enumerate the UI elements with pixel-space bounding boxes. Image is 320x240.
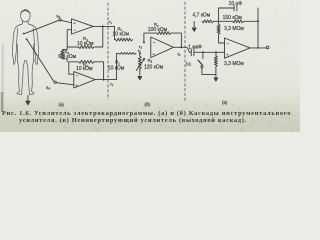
dashed separator a|b [107,3,109,99]
svg-text:−: − [153,40,156,45]
wire chest to electrode e2 [24,20,59,34]
svg-text:т4: т4 [138,49,142,54]
svg-text:+: + [75,83,78,88]
resistor 3.3M lower [214,52,217,74]
node e4 terminal [54,81,56,83]
svg-text:(б): (б) [145,102,151,107]
svg-text:3,3 МОм: 3,3 МОм [224,61,244,67]
svg-text:10 кОм: 10 кОм [77,41,94,47]
svg-text:(в): (в) [222,100,228,105]
svg-text:10 нФ: 10 нФ [229,1,243,7]
svg-text:т2: т2 [110,82,114,87]
svg-text:(а): (а) [59,102,65,107]
wire A3 output [174,47,192,52]
svg-text:т5: т5 [177,52,181,57]
ground under R3 [138,69,142,80]
svg-text:т3: т3 [139,45,143,50]
svg-text:120 кОм: 120 кОм [144,64,164,70]
output terminal circle [266,46,269,49]
page gutter shading left edge [2,44,4,94]
svg-text:т1: т1 [109,20,113,25]
feedback R2 100k [144,33,157,42]
svg-text:1 мкФ: 1 мкФ [188,45,202,51]
junction plus input / t4 [139,52,141,54]
resistor R3 6.8k (gain) [62,47,67,50]
op-amp A3 (diff stage) [151,37,174,58]
minus input wire + 3.3M upper [219,34,225,43]
resistor 4.7k to ground [214,20,219,22]
chest electrode dots [23,33,25,35]
wire e2 to op-amp A1 [61,20,71,22]
capacitor 1uF [190,49,192,56]
svg-text:э4: э4 [46,85,50,91]
svg-text:+: + [73,20,76,25]
wire A1 output [93,25,114,27]
feedback loop A2 with resistor R4b [79,60,95,63]
op-amp A1 (top buffer) [72,19,94,34]
wire cap to op-amp [194,51,225,53]
svg-text:100 кОм: 100 кОм [148,27,168,33]
feedback loop A1 with resistor R4 [95,26,103,47]
wire t2 into R1 bottom [116,53,118,79]
capacitor 10nF branch [219,7,235,9]
trimmer R3 120k [138,53,141,69]
wire t1 into R1 top [114,26,116,39]
node e2 terminal [59,19,61,21]
ground left of 4.7k [192,21,196,31]
svg-text:−: − [73,28,76,33]
svg-text:R1: R1 [115,60,120,66]
svg-text:3,3 МОм: 3,3 МОм [224,26,244,32]
op-amp A2 (bottom buffer) [74,72,95,88]
resistor 150k branch [219,20,258,23]
svg-text:6,8 кОм: 6,8 кОм [58,54,76,60]
svg-text:10 кОм: 10 кОм [108,66,125,72]
svg-text:10 кОм: 10 кОм [113,32,130,38]
svg-text:−: − [226,41,229,46]
svg-text:4,7 кОм: 4,7 кОм [192,13,210,19]
junction minus input [143,41,145,43]
svg-text:−: − [76,73,79,78]
switch S1 [202,52,204,58]
dashed separator b|v [184,2,186,101]
wire e4 to op-amp A2 [56,83,74,85]
wire chest to electrode e4 [27,40,54,82]
op-amp A4 (output stage) [225,38,251,58]
paper speckle noise [2,103,297,131]
human body figure [12,10,38,95]
feedback column right [257,8,259,48]
svg-text:R3: R3 [148,58,153,64]
ground under 3.3M [214,74,218,81]
figure caption [0,109,300,111]
ground electrode arrow at feet [26,96,30,105]
svg-text:S1: S1 [186,62,192,67]
wire A4 output to terminal [250,47,266,49]
wire A2 output [95,79,116,81]
svg-text:10 кОм: 10 кОм [76,66,93,72]
